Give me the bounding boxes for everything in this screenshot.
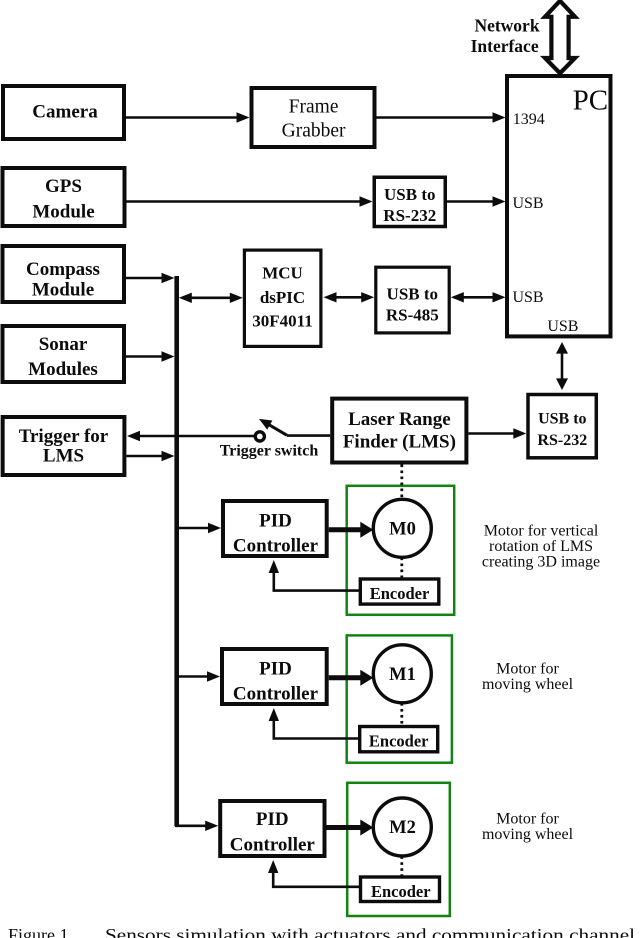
svg-text:Network: Network xyxy=(474,15,539,35)
dotted link LRF to motor M0 xyxy=(400,465,403,499)
svg-text:RS-232: RS-232 xyxy=(383,206,436,225)
encoder box 2 xyxy=(361,877,440,902)
label PID controller 1 xyxy=(233,659,319,705)
wire trigger box to bus xyxy=(127,455,164,458)
USB to RS-485 box xyxy=(376,267,449,333)
svg-text:Controller: Controller xyxy=(233,536,319,557)
svg-text:Sensors simulation with actuat: Sensors simulation with actuators and co… xyxy=(105,925,635,938)
feedback wire encoder 0 to PID 0 xyxy=(274,566,359,591)
svg-text:Encoder: Encoder xyxy=(371,882,431,901)
svg-text:Interface: Interface xyxy=(471,36,539,56)
svg-text:creating 3D image: creating 3D image xyxy=(482,554,600,571)
svg-text:Grabber: Grabber xyxy=(282,121,346,142)
encoder box 1 xyxy=(360,727,438,752)
svg-text:USB to: USB to xyxy=(384,185,435,204)
thick arrow PID 2 to motor M2 xyxy=(327,825,362,830)
dotted link M0 to encoder 0 xyxy=(400,558,403,578)
green motor enclosure 0 xyxy=(347,486,455,615)
thick arrow PID 0 to motor M0 xyxy=(329,527,362,532)
svg-text:GPS: GPS xyxy=(45,176,82,197)
figure caption xyxy=(8,925,635,938)
encoder box 0 xyxy=(360,579,439,604)
double arrow MCU to USB-RS485 xyxy=(333,296,365,299)
wire sonar to bus xyxy=(126,355,164,358)
svg-text:PID: PID xyxy=(259,659,292,680)
wire frame grabber to PC 1394 xyxy=(377,116,495,119)
wire bus to PID 1 xyxy=(179,675,210,678)
svg-text:LMS: LMS xyxy=(43,446,84,467)
svg-text:Controller: Controller xyxy=(233,684,319,705)
motor M2 circle xyxy=(373,798,431,856)
label MCU dsPIC 30F4011 xyxy=(252,263,312,330)
label compass module xyxy=(26,259,100,301)
svg-text:Controller: Controller xyxy=(230,835,316,856)
wire switch to trigger box xyxy=(140,435,255,438)
svg-text:Encoder: Encoder xyxy=(369,732,429,751)
svg-text:M0: M0 xyxy=(389,519,416,539)
svg-text:USB: USB xyxy=(512,289,543,306)
camera box xyxy=(3,86,124,139)
svg-text:MCU: MCU xyxy=(262,263,303,282)
wire LRF to USB-RS232 bottom xyxy=(468,432,515,435)
wire LRF to trigger switch xyxy=(287,434,330,437)
label sonar modules xyxy=(28,334,98,380)
motor M0 circle xyxy=(373,499,431,557)
svg-text:Motor for: Motor for xyxy=(496,661,559,678)
svg-text:1394: 1394 xyxy=(513,111,545,128)
svg-text:Frame: Frame xyxy=(289,97,339,118)
wire USB-RS232 to PC USB xyxy=(447,200,494,203)
svg-text:Camera: Camera xyxy=(32,101,98,122)
svg-text:RS-485: RS-485 xyxy=(386,306,439,325)
label laser range finder xyxy=(343,409,456,453)
double arrow PC to USB-RS232 bottom xyxy=(561,352,564,380)
svg-text:Trigger switch: Trigger switch xyxy=(220,443,319,460)
wire camera to frame grabber xyxy=(126,116,238,119)
svg-text:USB to: USB to xyxy=(387,284,438,303)
svg-text:moving wheel: moving wheel xyxy=(482,676,574,693)
annotation motor 1 xyxy=(482,661,574,694)
label USB to RS-485 xyxy=(386,284,439,324)
svg-text:Trigger for: Trigger for xyxy=(19,426,109,447)
bus vertical line xyxy=(174,276,179,826)
svg-text:PID: PID xyxy=(256,809,289,830)
svg-text:Motor for vertical: Motor for vertical xyxy=(484,523,599,540)
PID controller box 1 xyxy=(222,649,327,704)
svg-text:Module: Module xyxy=(32,202,94,223)
motor M1 circle xyxy=(373,645,431,703)
PID controller box 2 xyxy=(220,801,324,856)
trigger switch lever arrow xyxy=(269,424,288,435)
svg-text:Finder (LMS): Finder (LMS) xyxy=(343,431,456,452)
svg-text:moving wheel: moving wheel xyxy=(482,826,574,843)
label PID controller 2 xyxy=(230,809,316,856)
svg-text:PC: PC xyxy=(573,85,608,117)
svg-text:M1: M1 xyxy=(389,665,416,685)
annotation motor 0 xyxy=(482,523,600,571)
network interface block arrow xyxy=(545,1,575,73)
compass module box xyxy=(3,246,125,302)
laser range finder box xyxy=(332,399,466,463)
frame grabber box xyxy=(252,88,375,147)
wire bus elbow to PID 2 xyxy=(175,824,208,827)
svg-text:Figure 1.: Figure 1. xyxy=(8,925,73,938)
feedback wire encoder 2 to PID 2 xyxy=(273,866,359,887)
USB to RS-232 box (top) xyxy=(374,177,445,226)
annotation motor 2 xyxy=(482,811,574,844)
thick arrow PID 1 to motor M1 xyxy=(329,675,362,680)
wire bus to PID 0 xyxy=(179,527,211,530)
svg-text:rotation of LMS: rotation of LMS xyxy=(489,538,593,555)
svg-text:USB: USB xyxy=(512,195,543,212)
green motor enclosure 2 xyxy=(347,783,450,916)
double arrow USB-RS485 to PC USB xyxy=(460,296,495,299)
label PID controller 0 xyxy=(233,511,319,557)
svg-text:dsPIC: dsPIC xyxy=(260,288,305,307)
svg-text:USB: USB xyxy=(547,318,578,335)
double arrow bus to MCU xyxy=(188,296,232,299)
wire GPS to USB-RS232 xyxy=(127,200,362,203)
feedback wire encoder 1 to PID 1 xyxy=(274,714,358,739)
USB to RS-232 box (bottom) xyxy=(528,395,596,458)
svg-text:Encoder: Encoder xyxy=(370,584,430,603)
svg-text:Sonar: Sonar xyxy=(39,334,88,355)
GPS module box xyxy=(3,168,125,226)
label trigger for LMS xyxy=(19,426,109,467)
svg-text:USB to: USB to xyxy=(538,411,586,428)
svg-text:Laser Range: Laser Range xyxy=(348,409,451,430)
svg-text:Module: Module xyxy=(32,280,94,301)
label frame grabber xyxy=(282,97,346,142)
svg-text:RS-232: RS-232 xyxy=(537,432,587,449)
label USB to RS-232 bottom xyxy=(537,411,587,449)
dotted link M2 to encoder 2 xyxy=(400,856,403,877)
trigger for LMS box xyxy=(3,417,125,475)
trigger switch contact circle xyxy=(255,432,264,441)
MCU dsPIC 30F4011 box xyxy=(244,250,321,346)
svg-text:PID: PID xyxy=(259,511,292,532)
label GPS module xyxy=(32,176,94,223)
svg-text:Modules: Modules xyxy=(28,359,98,380)
label network interface xyxy=(471,15,540,56)
PID controller box 0 xyxy=(223,501,327,556)
svg-text:Compass: Compass xyxy=(26,259,100,280)
sonar modules box xyxy=(3,326,125,382)
label USB to RS-232 top xyxy=(383,185,436,225)
svg-text:Motor for: Motor for xyxy=(496,811,559,828)
svg-text:M2: M2 xyxy=(389,818,416,838)
PC box xyxy=(507,76,611,336)
wire compass to bus xyxy=(126,277,164,280)
green motor enclosure 1 xyxy=(347,635,452,762)
svg-text:30F4011: 30F4011 xyxy=(252,312,312,331)
dotted link M1 to encoder 1 xyxy=(400,703,403,727)
